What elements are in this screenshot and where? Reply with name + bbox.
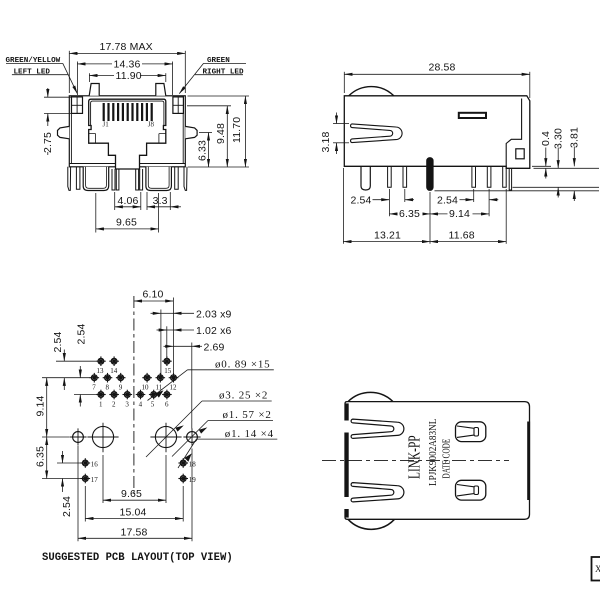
svg-text:3.18: 3.18 <box>320 131 332 152</box>
hole 19 <box>178 474 188 484</box>
post circle 1.57 left <box>69 428 86 445</box>
dim 3.81 <box>569 127 581 201</box>
svg-text:15: 15 <box>164 367 172 375</box>
dim 9.14 <box>430 208 489 221</box>
svg-text:17: 17 <box>91 476 99 484</box>
jack opening inner wall line <box>91 101 164 125</box>
shield ground leg right <box>146 167 172 191</box>
svg-text:14: 14 <box>110 367 118 375</box>
LED pin left <box>76 167 80 189</box>
svg-text:J1: J1 <box>103 120 110 128</box>
svg-text:6.10: 6.10 <box>143 289 164 301</box>
svg-text:3.81: 3.81 <box>569 127 581 148</box>
hole 4 <box>136 390 146 400</box>
hole 8 <box>103 373 113 383</box>
jack opening side ledges <box>89 134 166 144</box>
dim 11.68 <box>430 229 506 241</box>
horizontal centerline (dashed) <box>322 459 509 461</box>
dim 14.36 <box>77 59 172 95</box>
dim 2.54 (rows 13-7) <box>52 331 64 390</box>
pin number labels 16-19 <box>91 460 196 484</box>
dimensions of view 2 <box>320 62 599 244</box>
svg-text:0.4: 0.4 <box>540 131 552 146</box>
mount circle 3.25 left <box>87 423 118 453</box>
dim 11.70 (right) <box>188 96 250 167</box>
dim 2.75 (left) <box>42 88 71 155</box>
rear clip bottom <box>456 480 486 500</box>
label GREEN/YELLOW LEFT LED with leader <box>6 57 78 94</box>
svg-text:11: 11 <box>156 384 163 392</box>
hole 5 <box>149 390 159 400</box>
svg-text:14.36: 14.36 <box>114 59 141 71</box>
dimensions of view 3 <box>34 289 277 564</box>
hole 3 <box>123 390 133 400</box>
dim 6.35 (left) <box>34 437 46 479</box>
title block corner box <box>592 557 600 581</box>
label GREEN RIGHT LED with leader <box>179 57 246 94</box>
dim 3.3 (bottom) <box>147 192 181 210</box>
svg-text:DATE CODE: DATE CODE <box>440 439 451 479</box>
body inner fold line right <box>182 96 184 164</box>
shield ground leg left <box>83 167 109 191</box>
hole 11 <box>156 373 166 383</box>
post circle 1.57 right <box>183 428 200 445</box>
dim 17.78 MAX <box>69 41 185 93</box>
hole 6 <box>162 390 172 400</box>
svg-text:5: 5 <box>151 401 155 409</box>
svg-text:6.35: 6.35 <box>399 208 420 220</box>
locating peg (black) <box>427 158 434 191</box>
svg-text:6.33: 6.33 <box>196 140 208 161</box>
connector body front face <box>69 96 185 167</box>
callout 1.14 x4 <box>178 428 277 468</box>
pin number labels row 1-6 <box>99 401 169 409</box>
extension lines bottom <box>342 168 344 244</box>
svg-text:2: 2 <box>112 401 116 409</box>
hole 2 <box>109 390 119 400</box>
svg-text:SUGGESTED PCB LAYOUT(TOP VIEW): SUGGESTED PCB LAYOUT(TOP VIEW) <box>42 552 233 564</box>
svg-text:2.69: 2.69 <box>204 341 225 353</box>
hole 1 <box>96 390 106 400</box>
svg-text:9.65: 9.65 <box>121 488 142 500</box>
LED dome bump <box>349 87 394 96</box>
LED cutout notch bottom <box>344 497 350 509</box>
dim 3.30 <box>553 128 565 198</box>
svg-text:RIGHT LED: RIGHT LED <box>203 68 244 76</box>
dim 4.06 (bottom) <box>115 192 141 210</box>
svg-text:2.03 x9: 2.03 x9 <box>196 308 232 320</box>
shield front edge (thick) <box>345 403 349 517</box>
callout 1.57 x2 <box>172 409 273 456</box>
pin leg d <box>487 166 491 187</box>
svg-text:ø3. 25 ×2: ø3. 25 ×2 <box>219 390 268 402</box>
shield leg (side) <box>361 166 370 190</box>
top panel stop post right <box>156 84 166 96</box>
svg-text:4.06: 4.06 <box>118 195 139 207</box>
svg-text:3.3: 3.3 <box>153 195 168 207</box>
dim 28.58 <box>344 62 530 99</box>
ground spring top <box>351 419 404 438</box>
svg-text:13: 13 <box>97 367 105 375</box>
RJ45 jack opening silhouette <box>89 99 166 169</box>
svg-text:28.58: 28.58 <box>429 62 456 74</box>
dim 6.10 <box>134 289 174 378</box>
dim 6.35 <box>389 208 430 221</box>
svg-text:12: 12 <box>170 384 178 392</box>
side latch tab right <box>185 126 197 138</box>
svg-text:ø1. 14 ×4: ø1. 14 ×4 <box>225 428 274 440</box>
LED dome bottom <box>348 519 395 529</box>
callout 3.25 x2 <box>146 390 272 457</box>
svg-text:2.54: 2.54 <box>437 194 458 206</box>
hole 15 <box>162 356 172 366</box>
svg-text:10: 10 <box>142 384 150 392</box>
dim 9.65 (bottom) <box>96 193 159 233</box>
svg-text:6: 6 <box>165 401 169 409</box>
hole 14 <box>109 356 119 366</box>
svg-text:4: 4 <box>139 401 143 409</box>
svg-text:3.30: 3.30 <box>553 128 565 149</box>
svg-text:7: 7 <box>92 384 96 392</box>
ground latch spring <box>351 124 403 143</box>
svg-text:LPJK9002A83NL: LPJK9002A83NL <box>428 419 439 486</box>
hole 16 <box>81 458 91 468</box>
shield edge leg right <box>184 167 187 191</box>
dim 9.14 (left) <box>34 378 46 437</box>
callout 0.89 x15 <box>148 359 274 401</box>
inner wall of rear flange <box>506 99 521 167</box>
svg-text:2.54: 2.54 <box>52 331 64 352</box>
hole 18 <box>178 458 188 468</box>
svg-text:2.54: 2.54 <box>61 496 73 517</box>
right edge thick segment <box>527 422 530 501</box>
side latch tab left <box>58 126 70 138</box>
svg-text:9.14: 9.14 <box>449 208 470 220</box>
dim 9.48 (right) <box>187 106 231 167</box>
dim 2.54 (left pair) <box>351 194 415 206</box>
hole 17 <box>81 474 91 484</box>
dim 1.02 x6 <box>157 325 232 361</box>
svg-text:9.65: 9.65 <box>116 216 137 228</box>
dim 2.54 (right pair) <box>437 194 498 206</box>
LED cutout notch top <box>344 421 350 433</box>
mount circle 3.25 right <box>150 423 181 453</box>
svg-text:6.35: 6.35 <box>34 446 46 467</box>
svg-text:11.68: 11.68 <box>449 229 475 241</box>
contact pin legs center-left <box>112 169 119 190</box>
hole 9 <box>116 373 126 383</box>
vent slot bar <box>459 113 486 118</box>
pin leg a <box>388 166 392 187</box>
dim 17.58 <box>78 526 192 538</box>
svg-text:X: X <box>595 564 600 574</box>
left LED holder <box>72 97 83 114</box>
svg-text:11.70: 11.70 <box>231 117 243 143</box>
svg-text:16: 16 <box>91 460 99 468</box>
svg-text:9: 9 <box>119 384 123 392</box>
contact pin comb <box>103 103 153 121</box>
svg-text:3: 3 <box>125 401 129 409</box>
svg-text:2.75: 2.75 <box>42 132 54 153</box>
dim 15.04 <box>85 507 183 519</box>
svg-text:9.14: 9.14 <box>34 395 46 416</box>
pin leg e <box>503 166 507 187</box>
svg-text:LEFT LED: LEFT LED <box>14 68 51 76</box>
body outline <box>345 402 530 520</box>
dim 0.4 <box>540 131 552 179</box>
extension lines right <box>532 165 551 167</box>
svg-text:2.54: 2.54 <box>351 194 372 206</box>
svg-text:J8: J8 <box>148 120 155 128</box>
svg-text:LINK-PP: LINK-PP <box>405 435 424 479</box>
hole 7 <box>90 373 100 383</box>
svg-text:17.78 MAX: 17.78 MAX <box>100 41 153 53</box>
svg-text:8: 8 <box>106 384 110 392</box>
body inner fold line left <box>70 96 72 164</box>
shield bottom fold line <box>69 163 185 165</box>
dim 9.65 (pcb) <box>103 488 166 500</box>
hole 12 <box>169 373 179 383</box>
svg-text:ø1. 57 ×2: ø1. 57 ×2 <box>223 409 272 421</box>
pin leg c <box>472 166 476 187</box>
ground spring bottom <box>351 483 404 502</box>
svg-text:17.58: 17.58 <box>121 526 148 538</box>
svg-text:18: 18 <box>189 460 197 468</box>
PCB centerline (dashed) <box>133 296 135 494</box>
svg-text:13.21: 13.21 <box>374 229 401 241</box>
dim 2.54 (rows 7-1) <box>76 323 88 406</box>
top panel stop post left <box>89 84 99 96</box>
dim 2.03 x9 <box>151 308 232 377</box>
dim 3.18 (left) <box>320 113 349 155</box>
dim 13.21 <box>343 229 430 241</box>
dimensions of view 1 <box>6 41 250 233</box>
pin number labels row 13-15 <box>97 367 172 375</box>
bottom extension lines <box>102 455 104 503</box>
right LED holder <box>173 97 184 114</box>
dim 11.90 <box>89 70 165 82</box>
hole 10 <box>142 373 152 383</box>
shield edge leg left <box>68 167 71 191</box>
rear square hole <box>516 149 524 159</box>
rear clip top <box>456 422 486 442</box>
LED pin right <box>175 167 179 189</box>
svg-text:ø0. 89 ×15: ø0. 89 ×15 <box>215 359 270 371</box>
svg-text:1.02 x6: 1.02 x6 <box>196 325 232 337</box>
pin number labels row 7-12 <box>92 384 177 392</box>
contact pin legs center-right <box>136 169 143 190</box>
svg-text:19: 19 <box>189 476 197 484</box>
hole 13 <box>96 356 106 366</box>
dim 2.69 <box>164 341 225 428</box>
LED dome top <box>348 392 393 401</box>
svg-text:2.54: 2.54 <box>76 323 88 344</box>
svg-text:9.48: 9.48 <box>215 123 227 144</box>
side body outline <box>344 96 530 169</box>
svg-text:1: 1 <box>99 401 103 409</box>
left extension lines <box>56 360 96 362</box>
svg-text:11.90: 11.90 <box>116 70 142 82</box>
svg-text:15.04: 15.04 <box>120 507 147 519</box>
pin leg f (under flange) <box>509 168 511 190</box>
dim 2.54 (16-17) <box>61 451 73 517</box>
pin leg b <box>403 166 407 187</box>
dim 6.33 (right) <box>196 133 212 168</box>
